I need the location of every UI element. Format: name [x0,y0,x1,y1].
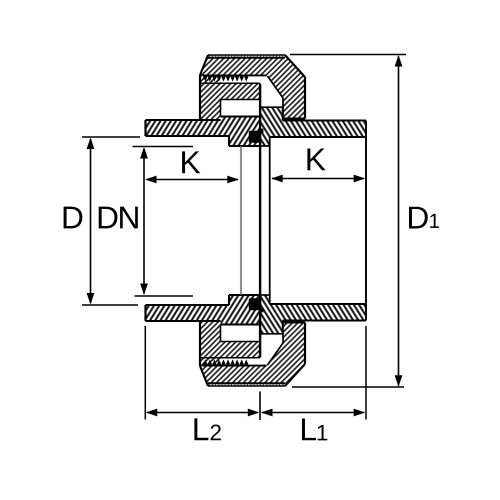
union nut bottom section [200,323,305,387]
nut limb inner edge (mirror) [221,341,260,343]
nut left chamfer [200,55,208,75]
nut bottom knurled face [208,384,286,386]
right pipe end face / L1 extension [365,121,367,321]
nut cavity left wall (mirror) [220,325,222,342]
body flange inner edge [260,145,269,147]
tailpiece flange step (mirror) [228,295,230,305]
nut face inner line [208,57,285,59]
body wall inner edge (mirror) [269,303,366,305]
label D1 [409,207,428,229]
nut right outer edge (mirror) [304,323,306,365]
body collar right edge [282,107,284,120]
nut face outer line (mirror) [208,385,285,387]
label DN [99,207,118,229]
body collar top edge (mirror) [260,333,282,335]
nut inner right edge [282,98,284,119]
nut bottom-right edge [283,117,305,119]
dimension DN extension top [133,146,194,148]
nut face outer line [208,54,285,56]
nut left outer edge [199,75,201,120]
o-ring seal bottom [249,298,260,310]
tailpiece flange step [228,136,230,146]
body collar right edge (mirror) [282,321,284,334]
tailpiece wall outer edge [146,119,221,121]
dimension K right line [272,178,364,180]
dimension L2 line [147,412,258,414]
body flange inner edge (mirror) [260,294,269,296]
dimension D1 line [398,57,400,386]
tailpiece wall inner edge [146,135,230,137]
L1 extension line below pipe [365,326,367,420]
tailpiece wall outer edge (mirror) [146,320,221,322]
tailpiece flange inner edge [229,145,260,147]
nut right chamfer [285,55,305,77]
o-ring groove corner bottom [260,308,263,312]
tailpiece wall inner edge (mirror) [146,304,230,306]
nut inner slant (mirror) [268,343,284,365]
left tailpiece lower wall [146,295,260,325]
dimension L1 line [262,412,364,414]
nut right chamfer (mirror) [285,364,305,386]
nut limb inner edge [221,99,260,101]
nut top knurled face [208,55,285,57]
nut bottom-right edge (mirror) [283,321,305,323]
right body lower wall [260,295,366,334]
right socket shoulder line [269,137,271,304]
label D [64,207,83,229]
tailpiece pipe end face [144,120,146,136]
label L2 [194,418,208,440]
body collar top edge [260,106,282,108]
nut left outer edge (mirror) [199,321,201,366]
o-ring seal top [249,131,260,143]
dimension DN extension bottom [135,295,194,297]
dimension D extension top [82,136,140,138]
thread bottom-nut line [203,365,267,367]
label K left [182,151,200,173]
thread bottom line [201,82,260,84]
nut cavity left wall [220,100,222,117]
tailpiece pipe end face (mirror) [144,305,146,321]
L divider line [259,392,261,421]
nut inner right edge (mirror) [282,323,284,344]
left socket shoulder line (grey) [240,147,242,295]
body wall inner edge [269,136,366,138]
body wall outer edge [283,119,366,121]
dimension D extension bottom [82,304,138,306]
o-ring groove corner top [260,129,263,133]
tailpiece flange top edge [221,115,261,117]
nut left chamfer (mirror) [200,366,208,386]
dimension D line [90,139,92,303]
dimension DN line [143,149,145,294]
body wall outer edge (mirror) [283,319,366,321]
label K right [307,148,325,170]
tailpiece flange inner edge (mirror) [229,294,260,296]
right body upper wall [260,107,366,146]
dimension D1 extension top [290,54,406,56]
union nut top section [200,55,305,119]
left L2 extension line [144,326,146,420]
nut right outer edge [304,77,306,119]
dimension D1 extension bottom [292,386,404,388]
tailpiece flange top edge (mirror) [221,323,261,325]
label L1 [302,418,316,440]
nut inner slant [268,76,284,98]
thread bottom-nut inner line [201,357,260,359]
dimension K left line [147,179,238,181]
joint face line [259,84,261,358]
nut face inner line (mirror) [208,382,285,384]
thread teeth top [203,76,249,81]
thread teeth bottom [203,359,249,364]
thread top line [203,74,267,76]
left tailpiece upper wall [146,117,260,147]
